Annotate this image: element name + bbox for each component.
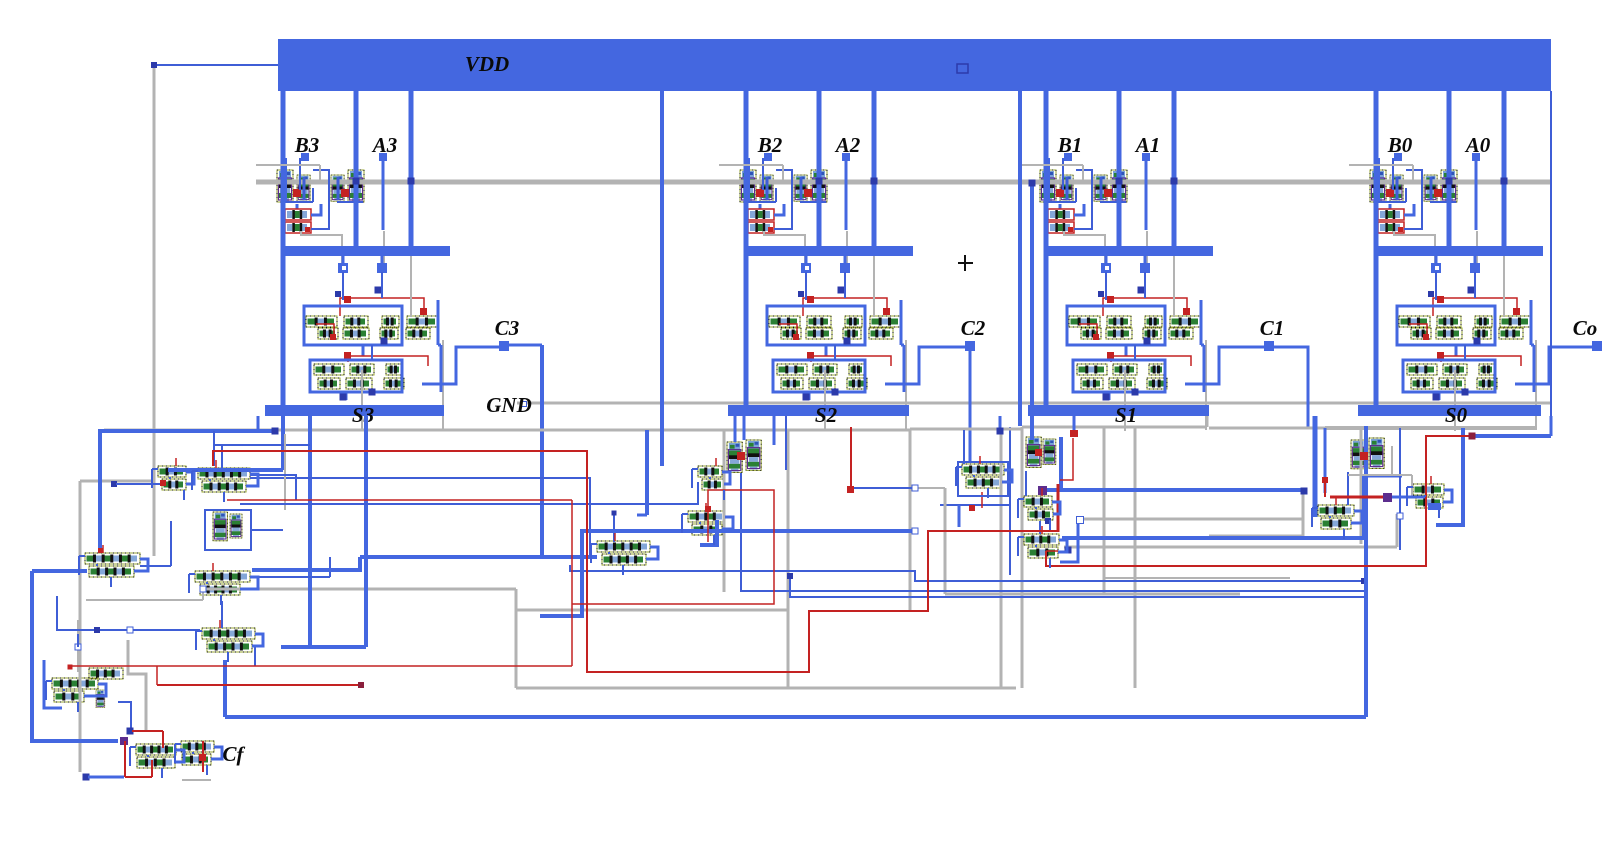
svg-text:S2: S2 (815, 403, 838, 427)
svg-text:C1: C1 (1260, 316, 1285, 340)
svg-text:GND: GND (486, 393, 532, 417)
svg-text:Co: Co (1573, 316, 1598, 340)
svg-text:VDD: VDD (465, 52, 509, 76)
svg-text:S0: S0 (1445, 403, 1468, 427)
svg-text:C2: C2 (961, 316, 986, 340)
svg-text:S3: S3 (352, 403, 374, 427)
svg-text:C3: C3 (495, 316, 520, 340)
svg-text:Cf: Cf (223, 742, 246, 766)
svg-text:S1: S1 (1115, 403, 1137, 427)
